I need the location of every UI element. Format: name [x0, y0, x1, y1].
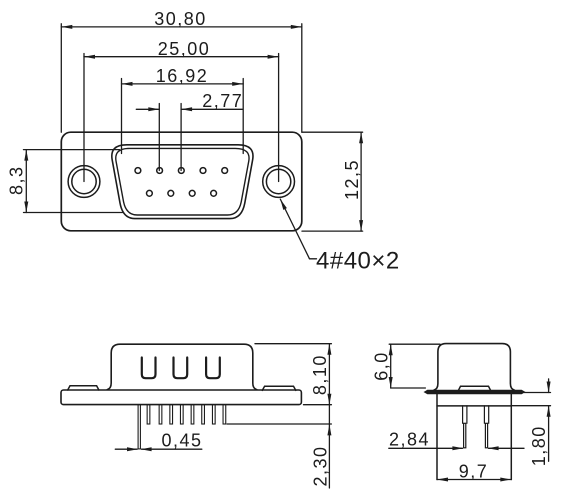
svg-text:4#40×2: 4#40×2: [316, 248, 400, 275]
end view body: [434, 344, 515, 391]
svg-text:25,00: 25,00: [158, 39, 211, 59]
side view U-slots: [142, 358, 220, 379]
dimension 1,80: [512, 379, 551, 466]
dimension 16,92: [122, 66, 244, 154]
end view lower body: [437, 394, 511, 480]
dimension 2,77: [136, 91, 243, 171]
svg-text:30,80: 30,80: [154, 9, 207, 29]
pin circles top row (1-5): [135, 168, 228, 174]
dimension 0,45: [115, 431, 202, 452]
dimension 30,80: [61, 9, 301, 132]
svg-text:1,80: 1,80: [529, 425, 549, 466]
dimension 6,0: [371, 344, 440, 388]
side view long pin: [138, 405, 140, 449]
side view mounting plate: [61, 390, 301, 405]
end view tab: [459, 386, 491, 390]
pin circles bottom row (6-9): [147, 190, 217, 196]
mounting hole right: [263, 166, 295, 198]
flange outline (top view): [61, 132, 301, 231]
dimension 2,84: [389, 430, 524, 451]
svg-text:6,0: 6,0: [371, 351, 391, 381]
side view body: [107, 344, 257, 389]
dimension 2,30: [311, 424, 332, 488]
dimension 8,3: [6, 150, 122, 213]
side view short pins: [147, 405, 226, 424]
D-shell outer outline: [112, 145, 253, 219]
dimension 25,00: [84, 39, 279, 182]
mounting hole left: [68, 166, 100, 198]
dimension 8,10 and 2,30 extension lines: [227, 344, 331, 424]
leader and label 4#40x2: [280, 199, 399, 274]
svg-text:16,92: 16,92: [156, 66, 209, 86]
end view right pin: [484, 406, 488, 448]
dimension 9,7: [437, 461, 511, 481]
dimension 8,10: [310, 344, 331, 424]
svg-text:9,7: 9,7: [459, 461, 489, 481]
svg-text:12,5: 12,5: [342, 159, 362, 200]
end view mounting plate (filled): [425, 390, 525, 393]
end view left pin: [463, 406, 467, 448]
side view right tab: [262, 386, 296, 390]
D-shell inner outline: [116, 148, 249, 215]
svg-text:2,77: 2,77: [202, 91, 243, 111]
svg-text:2,84: 2,84: [389, 430, 430, 450]
svg-text:2,30: 2,30: [311, 445, 331, 486]
side view left tab: [68, 386, 99, 390]
svg-text:8,10: 8,10: [310, 354, 330, 395]
dimension 12,5: [302, 132, 363, 231]
svg-text:8,3: 8,3: [6, 165, 26, 195]
svg-text:0,45: 0,45: [161, 431, 202, 451]
